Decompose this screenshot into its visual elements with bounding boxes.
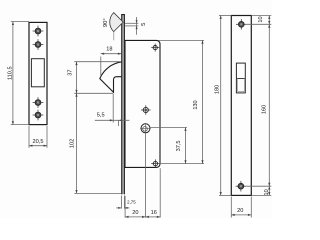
dimension 2,75 [116, 196, 129, 209]
svg-text:5,5: 5,5 [97, 113, 105, 119]
svg-text:5: 5 [141, 23, 147, 26]
svg-text:102: 102 [69, 139, 75, 148]
dimension 102 [74, 93, 121, 193]
screw S6 (bottom) [236, 181, 247, 192]
dimension 16 (middle bottom) [146, 168, 161, 217]
dimension 5,5 [95, 94, 130, 126]
svg-text:37,5: 37,5 [176, 140, 182, 151]
screw S1 [33, 26, 44, 37]
svg-text:110,5: 110,5 [8, 66, 14, 80]
strike plate outline [29, 22, 47, 124]
dimension 180 [219, 16, 231, 196]
dimension 37,5 [150, 128, 204, 164]
90 degree fan annotation [110, 13, 123, 41]
svg-text:2,75: 2,75 [127, 200, 136, 205]
faceplate outline [231, 16, 251, 196]
dimension 5 (top) [125, 17, 138, 35]
dimension 20,5 [29, 126, 47, 148]
faceplate (side) [121, 14, 125, 194]
svg-text:10: 10 [258, 16, 264, 22]
screw S2 [33, 39, 44, 50]
dimension 110,5 [11, 22, 29, 125]
right side dimensions 10 / 160 / 10 [246, 16, 271, 196]
screw S3 [33, 97, 44, 108]
svg-text:10: 10 [264, 189, 270, 195]
strike plate cutout [31, 59, 44, 87]
dimension 20 (right bottom) [231, 197, 251, 218]
screw S5 (top) [236, 19, 247, 30]
hole H2 [141, 105, 151, 115]
cylinder C [140, 123, 151, 134]
svg-text:37: 37 [67, 69, 73, 75]
dimension 20 (middle bottom) [125, 133, 145, 218]
hook bolt [100, 62, 122, 93]
hole H3 (bottom) [151, 159, 159, 167]
dimension 37 [74, 62, 120, 94]
svg-text:20: 20 [237, 208, 243, 214]
dimension 130 [158, 40, 204, 163]
svg-text:160: 160 [262, 105, 268, 114]
svg-text:130: 130 [193, 100, 199, 109]
svg-text:20: 20 [132, 210, 138, 216]
svg-text:180: 180 [215, 85, 221, 94]
hole H1 (top) [151, 44, 159, 52]
dimension 18 [101, 54, 122, 77]
lock body [125, 40, 160, 167]
screw S4 [33, 110, 44, 121]
svg-text:90°: 90° [103, 18, 109, 27]
svg-text:16: 16 [151, 210, 157, 216]
svg-text:20,5: 20,5 [33, 139, 44, 145]
svg-text:18: 18 [106, 47, 112, 53]
hook slot [236, 63, 245, 93]
